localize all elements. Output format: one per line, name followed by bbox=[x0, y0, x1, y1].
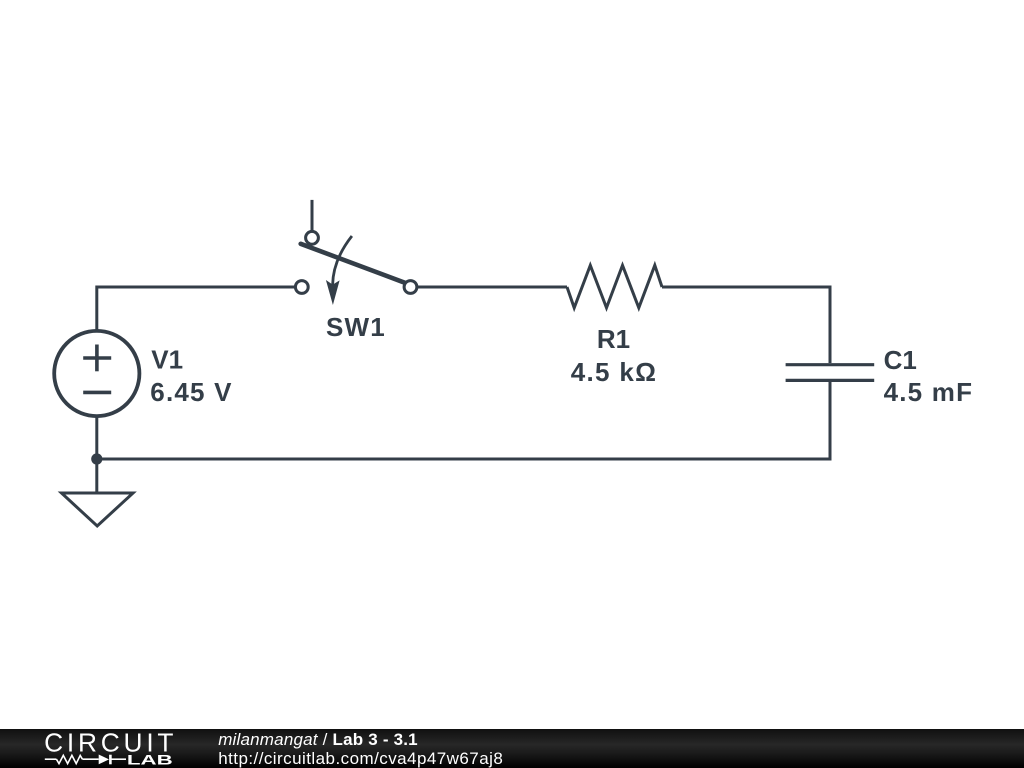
svg-text:6.45 V: 6.45 V bbox=[150, 377, 232, 407]
wire resistor to capacitor top bbox=[662, 287, 830, 363]
logo resistor bbox=[56, 755, 82, 763]
footer bar bbox=[0, 729, 1024, 768]
resistor R1 bbox=[567, 265, 662, 308]
wire V1 top to switch left terminal bbox=[97, 287, 302, 332]
svg-text:4.5 kΩ: 4.5 kΩ bbox=[571, 357, 657, 387]
capacitor C1 bbox=[786, 365, 875, 381]
svg-text:http://circuitlab.com/cva4p47w: http://circuitlab.com/cva4p47w67aj8 bbox=[218, 749, 503, 768]
switch SW1 bbox=[311, 200, 314, 230]
switch actuate arrow bbox=[333, 236, 352, 285]
wire switch right terminal to resistor bbox=[411, 286, 568, 289]
svg-text:SW1: SW1 bbox=[326, 312, 386, 342]
svg-text:LAB: LAB bbox=[127, 752, 173, 768]
wire V1 bottom through node to ground bbox=[95, 415, 98, 493]
voltage source V1 bbox=[54, 331, 139, 416]
svg-text:R1: R1 bbox=[597, 324, 630, 354]
logo schematic: wire bbox=[45, 755, 126, 765]
svg-text:milanmangat / Lab 3 - 3.1: milanmangat / Lab 3 - 3.1 bbox=[218, 730, 418, 749]
node (junction dot) bbox=[91, 453, 102, 464]
svg-text:V1: V1 bbox=[151, 344, 183, 374]
wire capacitor bottom to ground rail bbox=[97, 382, 830, 459]
ground bbox=[62, 493, 134, 526]
logo diode triangle bbox=[99, 755, 109, 765]
svg-text:4.5 mF: 4.5 mF bbox=[884, 377, 974, 407]
svg-text:C1: C1 bbox=[884, 345, 917, 375]
logo diode bar bbox=[109, 755, 112, 765]
